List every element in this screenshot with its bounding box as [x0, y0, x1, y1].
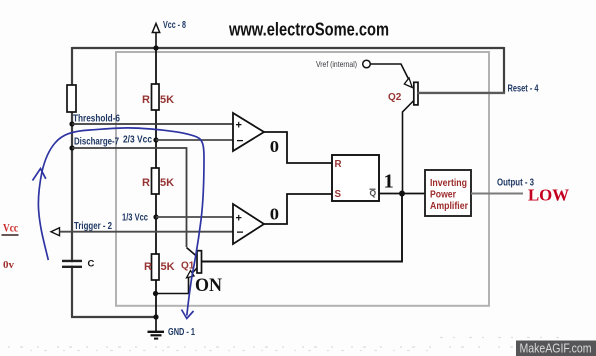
wire feedback from output node to Q1 base [202, 194, 402, 262]
svg-text:Inverting: Inverting [430, 178, 467, 189]
svg-text:5K: 5K [160, 177, 174, 189]
Vref terminal circle [363, 60, 371, 68]
svg-text:R: R [142, 177, 150, 189]
wire Vcc rail down to R1 [155, 48, 157, 85]
svg-text:LOW: LOW [528, 186, 569, 205]
wire amplifier output to pin 3 [471, 193, 523, 195]
wire R3 to ground junction [155, 280, 157, 317]
node Threshold [69, 121, 74, 126]
capacitor C plates [62, 261, 82, 267]
node ground junction [153, 314, 158, 319]
node emitter junction [153, 291, 158, 296]
node 1/3 Vcc [153, 214, 158, 219]
Q2 base bar [414, 82, 418, 105]
svg-text:1/3 Vcc: 1/3 Vcc [122, 212, 148, 223]
svg-text:5K: 5K [161, 261, 175, 273]
ground symbol [148, 317, 165, 339]
svg-text:ON: ON [195, 275, 222, 296]
svg-text:Threshold-6: Threshold-6 [73, 114, 120, 125]
discharge current path annotation (blue) [33, 128, 205, 319]
comparator U1 (upper) [233, 113, 264, 151]
IC inner boundary (gray rect) [116, 52, 489, 306]
Q1 collector diagonal from discharge drop [187, 248, 198, 257]
transistor Q1 [156, 248, 202, 294]
wire trigger line to comparator 2 inverting input [60, 231, 234, 233]
svg-text:Vref (internal): Vref (internal) [316, 59, 357, 69]
Q1 emitter arrowhead [187, 271, 195, 278]
svg-text:MakeAGIF.com: MakeAGIF.com [520, 341, 592, 356]
Vcc pin 8 terminal arrow [152, 24, 159, 49]
comparator U2 (lower) [233, 204, 264, 244]
svg-text:Power: Power [430, 189, 456, 200]
wire reset line from Q2 base [418, 92, 505, 94]
svg-text:Amplifier: Amplifier [430, 201, 468, 212]
svg-text:5K: 5K [160, 94, 174, 106]
svg-text:Trigger - 2: Trigger - 2 [74, 221, 112, 232]
svg-text:R: R [144, 261, 152, 273]
wire comparator 2 output to flip-flop S input [264, 194, 332, 224]
node Discharge [69, 145, 74, 150]
svg-text:Vcc - 8: Vcc - 8 [163, 20, 186, 31]
label Vcc (red, capacitor charged annotation) [2, 223, 19, 236]
node output junction [399, 191, 405, 197]
watermark MakeAGIF.com [516, 341, 596, 356]
svg-text:−: − [237, 225, 244, 239]
flip-flop U3 box [332, 155, 379, 201]
svg-text:0: 0 [270, 204, 279, 223]
resistor external (left rail) body [67, 85, 76, 112]
resistor R3 5K body [152, 254, 160, 280]
svg-text:+: + [236, 213, 242, 225]
inverting power amplifier box [425, 170, 471, 216]
node dot top rail [153, 45, 158, 50]
wire 1/3 Vcc node to comparator 2 non-inverting input [156, 216, 233, 218]
wire comparator 1 output to flip-flop R input [264, 132, 332, 163]
resistor R2 5K body [152, 168, 160, 194]
resistor R1 5K body [152, 84, 160, 110]
svg-text:www.electroSome.com: www.electroSome.com [228, 19, 389, 39]
node 2/3 Vcc [153, 137, 158, 142]
svg-text:R: R [142, 94, 150, 106]
outer boundary right drop wire to reset [503, 47, 505, 94]
wire R1 to 2/3 node to R2 [155, 110, 157, 168]
svg-text:−: − [237, 134, 244, 148]
svg-text:Discharge-7: Discharge-7 [74, 137, 119, 148]
svg-text:0v: 0v [3, 259, 15, 271]
wire discharge line to Q1 collector drop [72, 148, 187, 247]
Q1 emitter wire to ground rail [156, 268, 197, 294]
wire threshold line to comparator 1 [72, 123, 233, 125]
svg-text:C: C [88, 259, 95, 270]
svg-text:1: 1 [384, 171, 394, 193]
svg-text:2/3 Vcc: 2/3 Vcc [123, 134, 152, 145]
svg-text:Reset - 4: Reset - 4 [508, 84, 539, 95]
svg-text:GND - 1: GND - 1 [168, 327, 195, 338]
svg-text:0: 0 [270, 137, 279, 156]
outer boundary bottom wire [71, 316, 156, 318]
trigger terminal arrow [51, 228, 60, 236]
outer boundary top rail wire [72, 47, 504, 49]
svg-text:S: S [335, 189, 342, 200]
Q1 base bar [197, 251, 202, 273]
wire 2/3 Vcc node to comparator 1 inverting input [156, 139, 233, 141]
Q2 emitter wire from Vref [371, 64, 409, 79]
transistor Q2 [371, 64, 419, 191]
jpeg noise band (decorative) [8, 338, 590, 351]
Q2 emitter arrowhead [404, 78, 412, 88]
Q2 collector wire down to output node [403, 101, 414, 192]
svg-text:+: + [236, 120, 242, 132]
blue arrowhead downward (path end) [182, 310, 194, 319]
wire R2 to 1/3 node to R3 [155, 194, 157, 254]
outer boundary left rail wire [71, 47, 73, 317]
wire flip-flop output to amplifier [379, 193, 425, 195]
svg-text:R: R [335, 159, 342, 170]
blue arrowhead upward (mid path) [33, 169, 46, 181]
svg-text:Q2: Q2 [388, 92, 402, 103]
svg-text:Vcc: Vcc [3, 223, 18, 235]
